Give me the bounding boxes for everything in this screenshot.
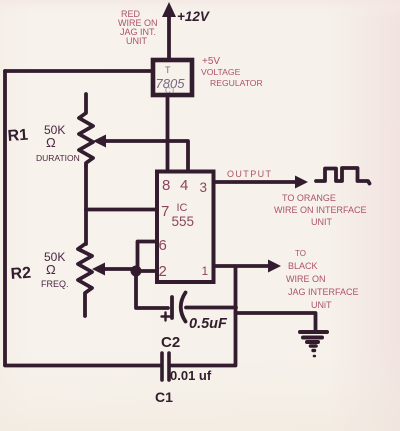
wire C1 right [170,364,236,368]
wire C2 right [186,306,236,310]
svg-text:FREQ.: FREQ. [41,279,69,289]
svg-text:CT: CT [165,86,176,95]
wire pin 7 [86,208,156,212]
node junction dot pins 2/6 [131,266,142,277]
wire pin 1 to black arrow [214,264,271,268]
svg-text:BLACK: BLACK [288,261,318,271]
arrowhead R2 wiper (left) [92,263,105,276]
svg-text:TO ORANGE: TO ORANGE [282,193,336,203]
svg-text:R2: R2 [10,265,32,283]
voltage regulator U1 7805 box [153,60,192,95]
arrowhead +12V [162,2,176,17]
svg-text:C1: C1 [155,389,173,405]
svg-text:UNIT: UNIT [126,36,147,46]
svg-text:4: 4 [180,177,188,194]
svg-text:UNIT: UNIT [311,217,332,227]
wire +12V stem [167,14,171,60]
svg-text:555: 555 [172,214,195,229]
svg-text:R1: R1 [7,127,29,145]
square wave symbol [316,168,370,184]
value 50K ohm freq [41,250,69,289]
svg-text:VOLTAGE: VOLTAGE [201,67,241,77]
svg-text:OUTPUT: OUTPUT [227,169,272,179]
svg-text:T: T [165,65,171,75]
svg-text:UNiT: UNiT [311,300,332,310]
ground symbol [300,332,327,356]
arrowhead black wire (right) [268,260,281,273]
svg-text:JAG INTERFACE: JAG INTERFACE [288,287,359,297]
arrowhead R1 wiper (left) [93,135,106,148]
7805 label [156,65,186,95]
svg-text:7: 7 [161,203,169,220]
wire 7805 to pin 8 [166,95,170,171]
wire R2 wiper to junction [101,267,135,271]
wire pin 2 [134,269,156,273]
value 50K ohm duration [36,123,80,163]
capacitor C1 [162,353,169,380]
op-amp / timer U2 555 box [157,172,214,283]
arrowhead output (right) [295,176,308,189]
svg-text:Ω: Ω [46,135,56,150]
wire top rail to 7805 [5,69,152,73]
svg-text:Ω: Ω [46,262,56,277]
wire ground branch [236,313,316,330]
capacitor C2 [162,293,186,322]
svg-text:DURATION: DURATION [36,153,80,163]
svg-text:WIRE ON INTERFACE: WIRE ON INTERFACE [274,205,367,215]
svg-text:C2: C2 [161,334,180,351]
wire pin 6 bend [138,242,157,272]
resistor R2 [78,244,92,316]
svg-text:0.5uF: 0.5uF [189,316,228,332]
wire R1 bottom to R2 top [84,166,88,244]
svg-text:WIRE ON: WIRE ON [286,274,326,284]
wire left rail [3,71,7,365]
pin labels 555 [159,177,209,280]
wire junction to C2 [136,271,168,308]
svg-text:TO: TO [295,249,306,258]
svg-text:1: 1 [202,264,209,278]
wire right vertical [234,267,238,364]
svg-text:+12V: +12V [177,9,210,24]
wire output pin 3 [214,180,297,184]
svg-text:6: 6 [159,237,167,254]
svg-text:8: 8 [162,177,170,194]
svg-text:3: 3 [200,180,208,195]
svg-text:2: 2 [159,263,167,280]
svg-text:+5V: +5V [202,56,220,67]
red annotations [118,9,367,310]
svg-text:0.01 uf: 0.01 uf [170,368,212,383]
wire R1 wiper to pin 4 [99,141,188,170]
svg-text:REGULATOR: REGULATOR [210,78,263,88]
resistor R1 [79,94,93,166]
svg-text:IC: IC [177,202,188,214]
wire bottom rail [5,364,160,368]
